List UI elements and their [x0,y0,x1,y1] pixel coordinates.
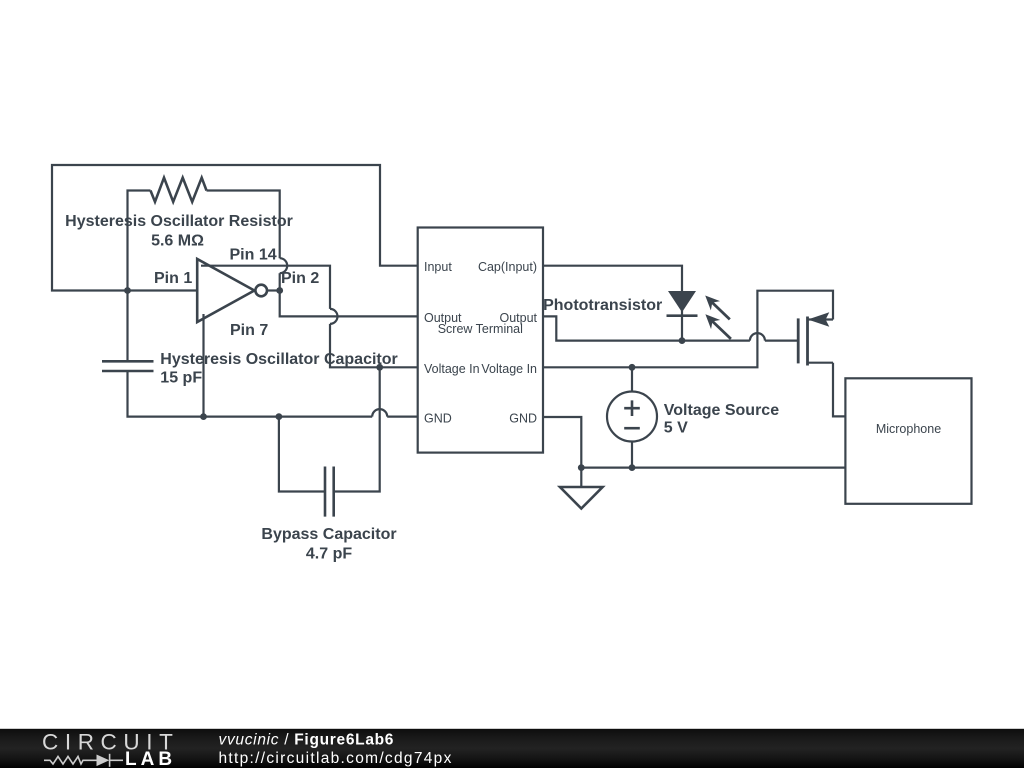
svg-text:Screw Terminal: Screw Terminal [438,322,523,336]
inverter U1 triangle (Schmitt oscillator gate) [197,259,254,322]
ground symbol triangle [560,487,603,509]
wire phototransistor junction continue to hop [682,340,750,342]
svg-text:LAB: LAB [125,749,176,768]
svg-text:Voltage In: Voltage In [481,362,537,376]
capacitor C1 Hysteresis Oscillator Capacitor 15 pF plates [102,361,154,371]
wire ground bus into Screw Terminal GND pin [387,416,418,418]
wire ground bus left from C1 bottom [128,371,373,417]
svg-text:5.6 MΩ: 5.6 MΩ [151,233,204,250]
wire resistor right lead down to hop [207,191,280,259]
svg-text:Cap(Input): Cap(Input) [478,260,537,274]
node junction Pin1/C1 [124,287,131,294]
svg-text:Phototransistor: Phototransistor [543,297,662,314]
wire hop of gate wire over Voltage In riser [750,333,765,340]
voltage source V1 circle [607,392,657,442]
svg-text:http://circuitlab.com/cdg74px: http://circuitlab.com/cdg74px [219,750,453,767]
screw terminal U2 box [418,228,543,453]
phototransistor Q1 light arrow 2 [705,314,731,339]
voltage source V1 plus sign [624,400,640,416]
wire hop over Output net [330,309,338,324]
transistor Q2 drain lead [808,318,834,320]
transistor Q2 source lead [808,362,834,364]
wire bypass capacitor left lead up to ground bus [279,417,325,492]
svg-text:Pin 7: Pin 7 [230,322,268,339]
wire gate wire after hop [765,340,798,342]
svg-text:Input: Input [424,260,452,274]
svg-text:vvucinic / Figure6Lab6: vvucinic / Figure6Lab6 [219,732,395,749]
wire input-net outer loop (Pin 1 to Input) [52,165,418,291]
logo squiggle resistor-diode [44,754,123,767]
resistor R1 Hysteresis Oscillator Resistor 5.6 MOhm [151,178,207,202]
transistor Q2 arrow [808,312,830,327]
wire hop of ground bus over VDD wire [372,409,387,417]
node junction ground bus / Pin 7 [200,413,207,420]
wire GND pin right to ground node [543,417,581,468]
node junction VDD / bypass cap [376,364,383,371]
svg-text:Pin 14: Pin 14 [230,247,277,264]
svg-text:4.7 pF: 4.7 pF [306,546,352,563]
wire Voltage In pin right to transistor drain [543,291,833,368]
voltage source V1 top lead [631,367,633,391]
node junction phototransistor cathode / gate wire [679,337,686,344]
wire output junction to Screw Terminal Output pin [280,291,418,317]
capacitor C2 Bypass Capacitor 4.7 pF plates [325,467,334,517]
voltage source V1 minus sign [624,427,640,430]
transistor Q2 gate bar [797,318,800,363]
svg-text:5 V: 5 V [664,420,688,437]
phototransistor Q1 light arrow 1 [705,296,730,320]
node junction ground / ground symbol [578,464,585,471]
wire hop over Pin 14 net [280,258,288,273]
svg-text:Pin 2: Pin 2 [281,270,319,287]
node junction Voltage In / source top [629,364,636,371]
voltage source V1 bottom lead [631,442,633,468]
svg-text:Voltage Source: Voltage Source [664,402,779,419]
wire Pin 7 inverter ground stub [202,314,204,417]
wire inverter output to junction [267,289,280,291]
wire Output pin right to transistor gate [543,316,682,340]
wire source to microphone [833,363,845,417]
node junction ground / source bottom [629,464,636,471]
svg-text:Pin 1: Pin 1 [154,270,192,287]
svg-text:GND: GND [424,411,452,425]
svg-text:GND: GND [509,411,537,425]
svg-text:Microphone: Microphone [876,422,941,436]
wire capacitor C1 top lead from Pin 1 junction [126,291,128,362]
svg-text:Hysteresis Oscillator Capacito: Hysteresis Oscillator Capacitor [160,351,397,368]
node junction inverter output [276,287,283,294]
phototransistor Q1 diode triangle [668,291,696,312]
node junction ground bus / bypass cap [276,413,283,420]
svg-text:Bypass Capacitor: Bypass Capacitor [261,526,396,543]
footer bar [0,729,1024,768]
svg-text:15 pF: 15 pF [160,370,202,387]
inverter U1 output bubble [255,285,267,297]
wire ground bus right to microphone [581,467,845,469]
wire Pin 14 power net from inverter top [201,266,330,309]
wire resistor loop left+top lead [128,191,151,291]
wire Pin 14 net to Voltage In pin [330,324,418,367]
phototransistor Q1 cathode bar [667,314,698,317]
svg-text:Hysteresis Oscillator Resistor: Hysteresis Oscillator Resistor [65,213,293,230]
microphone M1 box [845,378,971,504]
wire resistor loop bottom to output junction [279,273,281,290]
transistor Q2 channel [806,317,809,366]
wire VDD junction down to bypass capacitor right lead [334,367,380,491]
wire Cap(Input) pin to phototransistor anode [543,266,682,341]
svg-text:Voltage In: Voltage In [424,362,480,376]
ground symbol stub [580,468,582,487]
